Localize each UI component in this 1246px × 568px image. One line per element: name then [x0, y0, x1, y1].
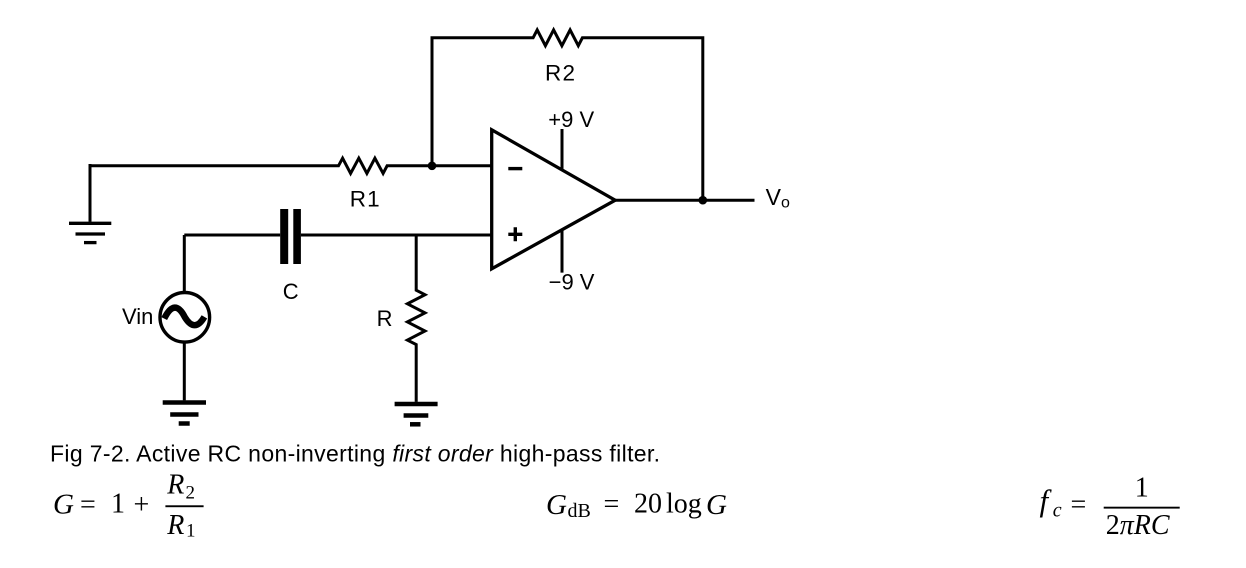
svg-text:=: =	[1071, 490, 1087, 521]
svg-text:+9 V: +9 V	[548, 107, 594, 132]
svg-text:C: C	[283, 279, 299, 304]
svg-text:−9 V: −9 V	[549, 270, 595, 295]
svg-text:1: 1	[111, 489, 125, 520]
svg-text:R1: R1	[350, 187, 381, 212]
svg-text:1: 1	[1135, 473, 1149, 504]
svg-text:G: G	[546, 489, 567, 521]
svg-text:Vin: Vin	[122, 304, 153, 329]
svg-text:R: R	[166, 510, 184, 541]
svg-text:=: =	[604, 489, 620, 520]
svg-text:G: G	[53, 489, 74, 521]
svg-text:o: o	[781, 195, 790, 212]
svg-text:1: 1	[186, 520, 196, 541]
svg-text:f: f	[1040, 483, 1053, 518]
svg-text:dB: dB	[568, 500, 591, 522]
svg-text:log: log	[666, 489, 702, 520]
svg-text:R2: R2	[545, 60, 576, 85]
svg-text:2: 2	[186, 482, 196, 503]
svg-text:20: 20	[634, 489, 662, 520]
svg-text:Fig 7-2. Active RC non-inverti: Fig 7-2. Active RC non-inverting first o…	[50, 440, 660, 466]
svg-text:V: V	[766, 184, 782, 210]
svg-text:G: G	[706, 489, 727, 521]
svg-text:2πRC: 2πRC	[1106, 510, 1170, 541]
svg-text:R: R	[166, 469, 184, 500]
svg-text:=: =	[80, 490, 96, 521]
svg-text:R: R	[377, 306, 393, 331]
svg-text:+: +	[134, 490, 150, 521]
svg-text:c: c	[1053, 500, 1062, 522]
